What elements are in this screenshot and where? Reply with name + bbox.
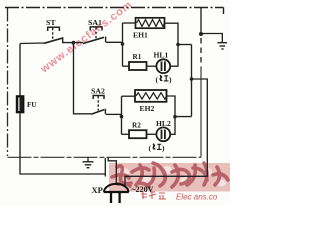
L rail top corner and main wire	[20, 42, 44, 45]
EH2 zigzag	[136, 93, 167, 99]
lamp HL2	[156, 127, 170, 141]
node C junction dot	[176, 43, 180, 47]
wire node B to EH2	[122, 95, 136, 97]
svg-text:EH2: EH2	[140, 104, 155, 113]
watermark big calligraphy 电子发烧友	[112, 163, 228, 187]
node D junction dot	[173, 115, 177, 119]
wire SA2 to node B	[106, 113, 122, 115]
earth wire right side	[200, 8, 202, 35]
wire R2 to HL2	[147, 133, 157, 135]
SA2 feed wire	[74, 43, 92, 114]
lamp HL1	[156, 59, 170, 73]
EH1 zigzag	[137, 20, 165, 27]
svg-text:ST: ST	[46, 18, 56, 27]
heater EH1 box	[136, 18, 165, 28]
svg-text:): )	[169, 75, 172, 84]
earth wire to plug middle pin	[108, 157, 116, 185]
SA2 fixed contact	[104, 109, 106, 114]
N rail	[191, 45, 193, 117]
wire node D to N rail	[175, 116, 192, 118]
svg-text:R1: R1	[133, 53, 142, 61]
SA1 actuator bracket	[90, 27, 102, 31]
frame border left	[7, 8, 9, 157]
svg-text:FU: FU	[27, 101, 37, 109]
svg-text:SA2: SA2	[91, 87, 105, 96]
junction dot earth/ground	[199, 32, 203, 36]
plug prongs	[111, 193, 120, 204]
node B vertical branch	[121, 96, 123, 134]
node B junction dot	[120, 115, 124, 119]
watermark small red text bottom	[141, 192, 166, 199]
svg-text:EH1: EH1	[133, 31, 148, 40]
frame border top	[5, 8, 224, 15]
heater EH2 box	[135, 90, 167, 102]
thermostat ST blade	[44, 38, 62, 43]
wire HL1 to node C rail	[170, 45, 178, 67]
SA2 actuator bracket	[93, 96, 104, 100]
plug XP dome	[104, 184, 128, 192]
label (red) for HL1	[156, 75, 173, 84]
svg-text:(: (	[156, 75, 159, 84]
wire ST to node T	[63, 42, 83, 44]
wire EH1 right	[165, 23, 179, 44]
node A junction dot	[121, 42, 125, 46]
N wire to plug right pin	[125, 79, 207, 187]
svg-text:): )	[162, 144, 165, 153]
SA1 actuator dashed link	[95, 28, 97, 39]
ground (top right)	[218, 43, 228, 49]
frame border bottom / earth line	[8, 156, 202, 158]
node T junction dot	[72, 41, 76, 45]
wire R1 to HL1	[147, 65, 157, 67]
switch SA1 blade	[83, 37, 104, 43]
svg-text:R2: R2	[132, 122, 141, 130]
resistor R2	[129, 130, 147, 138]
svg-text:~220V: ~220V	[132, 185, 154, 194]
N junction dot to plug	[190, 77, 194, 81]
wire EH2 right	[167, 96, 176, 117]
ST actuator dashed link	[52, 28, 54, 40]
wire SA1 to node A	[106, 41, 123, 43]
wire node A to R1	[123, 65, 130, 67]
L rail lower	[20, 113, 105, 175]
ground (bottom, chassis)	[83, 157, 94, 167]
svg-text:HL2: HL2	[156, 119, 171, 128]
label (red) for HL2	[149, 144, 166, 153]
switch SA2 blade	[91, 110, 104, 115]
svg-text:SA1: SA1	[88, 18, 102, 27]
svg-text:(: (	[149, 144, 152, 153]
SA2 actuator dashed link	[97, 96, 99, 111]
SA1 fixed contact	[105, 37, 107, 43]
ST fixed contact	[62, 37, 64, 43]
svg-text:Elec ans.co: Elec ans.co	[176, 193, 218, 202]
wire node A to EH1	[123, 22, 136, 24]
svg-text:HL1: HL1	[154, 51, 169, 60]
fuse FU	[17, 96, 24, 113]
wire node C to N rail	[178, 44, 192, 46]
wire to ground symbol	[201, 34, 222, 43]
plug left pin riser	[104, 158, 106, 177]
resistor R1	[129, 62, 147, 70]
watermark pink band bottom right	[109, 163, 230, 192]
node A vertical branch	[122, 23, 124, 66]
wire HL2 to node D rail	[170, 117, 175, 135]
ST actuator bracket	[48, 27, 60, 31]
L rail left side	[19, 44, 21, 97]
wire node B to R2	[122, 133, 130, 135]
svg-text:XP: XP	[92, 185, 103, 195]
